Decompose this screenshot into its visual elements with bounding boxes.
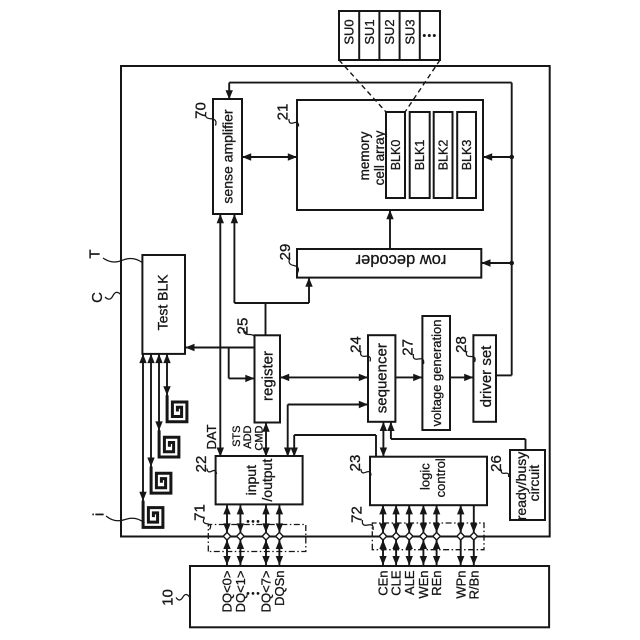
svg-text:28: 28	[453, 336, 470, 353]
svg-text:SU2: SU2	[382, 19, 397, 44]
svg-text:control: control	[433, 458, 448, 497]
svg-text:10: 10	[159, 589, 176, 606]
svg-text:Test BLK: Test BLK	[155, 274, 171, 331]
svg-text:R/Bn: R/Bn	[466, 571, 481, 600]
svg-text:cell array: cell array	[372, 130, 387, 185]
svg-text:DAT: DAT	[204, 424, 219, 449]
svg-text:70: 70	[192, 102, 209, 119]
svg-text:21: 21	[274, 104, 291, 121]
svg-text:STS: STS	[231, 426, 243, 447]
svg-text:BLK0: BLK0	[389, 140, 403, 171]
svg-text:29: 29	[277, 244, 294, 261]
svg-text:BLK1: BLK1	[413, 140, 427, 171]
svg-text:sense amplifier: sense amplifier	[219, 109, 235, 203]
svg-text:DQ<1>: DQ<1>	[233, 571, 248, 613]
svg-text:T: T	[86, 249, 103, 258]
svg-text:23: 23	[347, 455, 364, 472]
svg-text:input: input	[243, 465, 259, 495]
svg-text:C: C	[89, 292, 106, 303]
svg-text:SU0: SU0	[342, 19, 357, 44]
svg-text:71: 71	[191, 504, 208, 521]
svg-text:row decoder: row decoder	[355, 251, 446, 269]
svg-text:27: 27	[399, 339, 416, 356]
svg-text:26: 26	[488, 455, 505, 472]
svg-text:circuit: circuit	[526, 465, 542, 502]
svg-text:i: i	[90, 513, 107, 516]
svg-text:register: register	[259, 351, 276, 401]
svg-text:ADD: ADD	[242, 425, 254, 448]
svg-text:25: 25	[234, 318, 251, 335]
svg-text:BLK3: BLK3	[460, 140, 474, 171]
svg-text:ALE: ALE	[402, 570, 417, 595]
svg-text:SU3: SU3	[402, 19, 417, 44]
svg-text:BLK2: BLK2	[436, 140, 450, 171]
svg-text:CMD: CMD	[253, 425, 265, 450]
svg-text:voltage generation: voltage generation	[429, 320, 444, 427]
svg-text:SU1: SU1	[362, 19, 377, 44]
svg-text:logic: logic	[417, 463, 432, 490]
svg-text:memory: memory	[357, 131, 372, 180]
svg-text:DQSn: DQSn	[272, 571, 287, 606]
svg-text:/output: /output	[259, 459, 275, 502]
svg-text:driver set: driver set	[478, 345, 495, 408]
svg-text:24: 24	[347, 336, 364, 353]
svg-text:REn: REn	[429, 571, 444, 596]
svg-text:sequencer: sequencer	[373, 343, 390, 413]
